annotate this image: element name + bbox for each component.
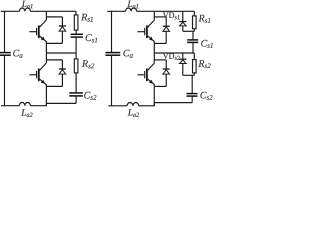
wire: V2 emitter drop upper <box>45 84 47 86</box>
diode VDs2 (b) <box>179 53 186 75</box>
capacitor Cs2 (a) <box>69 93 83 96</box>
inductor La2 (b) <box>127 102 139 105</box>
wire: left rail lower (a) <box>4 56 6 107</box>
wire: bottom rail mid segment (a) <box>30 105 46 107</box>
wire: V4 collector riser <box>153 53 155 63</box>
wire: top rail left segment (b) <box>107 10 125 12</box>
wire: junction to Cs1 (b) <box>192 31 194 39</box>
wire: top rail right segment (a) <box>30 10 76 12</box>
wire: V1 loop top <box>46 16 62 18</box>
diode VD2 antiparallel (a-bottom) <box>59 60 66 87</box>
label Rs2 (a) <box>82 60 94 68</box>
wire: Rs2 to Cs2 (a) <box>75 73 77 93</box>
diode VD3 antiparallel (b-top) <box>163 17 170 44</box>
wire: bottom rail mid segment (b) <box>139 105 155 107</box>
wire: V3 loop bottom <box>154 42 166 44</box>
wire: VDs1-Rs1 junction (b) <box>183 30 195 32</box>
label Rs2 (b) <box>198 60 210 68</box>
resistor Rs1 (a) <box>74 15 78 30</box>
wire: left rail upper (a) <box>4 11 6 52</box>
transistor V3 (IGBT, b-top) <box>138 20 155 42</box>
resistor Rs2 (a) <box>74 59 78 73</box>
capacitor Cs1 (a) <box>71 34 83 37</box>
label Cs1 (b) <box>201 40 213 48</box>
transistor V4 (IGBT, b-bottom) <box>138 63 155 85</box>
label La1 (a) <box>22 1 33 9</box>
wire: V3 emitter drop <box>153 41 155 53</box>
wire: bottom rail jog (a) <box>45 103 47 105</box>
wire: Cs1 to mid rail (a) <box>75 38 77 54</box>
wire: V2 collector riser <box>45 53 47 63</box>
diode VD1 antiparallel (a-top) <box>59 17 66 44</box>
wire: V1 loop bottom <box>46 42 62 44</box>
capacitor Ca (b) <box>105 53 120 56</box>
wire: V1 emitter drop <box>45 41 47 53</box>
wire: Rs1 top stub (b) <box>193 11 195 16</box>
label Cs2 (b) <box>200 92 212 100</box>
transistor V2 (IGBT, a-bottom) <box>29 63 46 85</box>
wire: V2 emitter to bottom rail <box>45 86 47 106</box>
capacitor Ca (a) <box>0 53 11 56</box>
wire: V3 collector riser <box>153 11 155 20</box>
resistor Rs1 (b) <box>193 16 197 29</box>
resistor Rs2 (b) <box>193 60 197 73</box>
wire: Cs2 to bottom rail (a) <box>75 96 77 103</box>
wire: V2 loop bottom <box>46 85 62 87</box>
inductor La2 (a) <box>19 102 30 105</box>
wire: Rs1 stub from top rail (a) <box>75 11 77 15</box>
label Rs1 (a) <box>81 14 93 22</box>
wire: bottom rail left segment (b) <box>108 105 127 107</box>
diode VDs1 (b) <box>179 11 186 31</box>
wire: Cs1 to mid rail (b) <box>192 43 194 53</box>
wire: Cs2 to bottom rail (b) <box>191 97 193 103</box>
label Rs1 (b) <box>199 15 211 23</box>
label La1 (b) <box>127 1 138 9</box>
wire: Rs1 to Cs1 (a) <box>75 30 77 34</box>
wire: Rs2 stub from mid rail (a) <box>75 53 77 59</box>
wire: V4 emitter to bottom rail <box>153 86 155 106</box>
wire: Rs2 top stub (b) <box>193 53 195 60</box>
wire: mid rail (a) <box>46 52 76 54</box>
wire: left rail lower (b) <box>111 56 113 107</box>
label VDs2 (b) <box>163 53 180 60</box>
inductor La1 (b) <box>126 8 137 11</box>
inductor La1 (a) <box>19 8 30 11</box>
wire: V1 collector riser <box>45 11 47 20</box>
wire: bottom rail right segment (b) <box>154 102 192 104</box>
label VDs1 (b) <box>163 13 180 20</box>
wire: bottom rail right segment (a) <box>46 102 76 104</box>
wire: mid rail (b) <box>154 52 194 54</box>
capacitor Cs2 (b) <box>187 94 198 97</box>
wire: V4 loop bottom <box>154 85 166 87</box>
wire: Rs1 bottom stub (b) <box>193 29 195 32</box>
label Cs2 (a) <box>84 92 96 100</box>
wire: V4 emitter drop upper <box>153 84 155 86</box>
label La2 (b) <box>128 109 139 117</box>
wire: V3 loop top <box>154 16 166 18</box>
wire: bottom rail left segment (a) <box>1 105 19 107</box>
wire: top rail right segment (b) <box>137 10 195 12</box>
wire: left rail upper (b) <box>111 11 113 52</box>
wire: V2 loop top <box>46 59 62 61</box>
wire: bottom rail jog (b) <box>153 103 155 106</box>
label Ca (b) <box>123 50 132 58</box>
label Ca (a) <box>13 50 22 58</box>
wire: Rs2 bottom stub (b) <box>193 73 195 75</box>
wire: top rail left segment (a) <box>1 10 20 12</box>
wire: V4 loop top <box>154 59 166 61</box>
diode VD4 antiparallel (b-bottom) <box>163 60 170 87</box>
capacitor Cs1 (b) <box>187 40 198 43</box>
label La2 (a) <box>21 109 32 117</box>
wire: junction to Cs2 (b) <box>191 75 193 93</box>
wire: VDs2-Rs2 junction (b) <box>183 74 195 76</box>
label Cs1 (a) <box>86 34 98 42</box>
transistor V1 (IGBT, a-top) <box>29 20 46 42</box>
